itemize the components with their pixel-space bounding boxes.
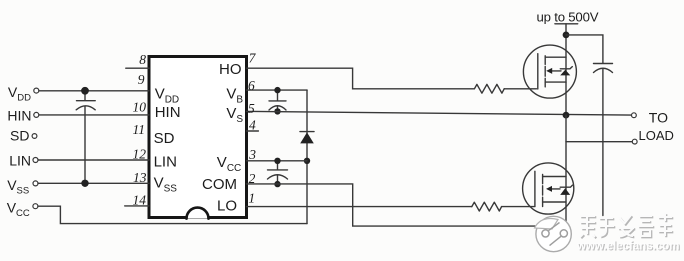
svg-text:LIN: LIN [9, 153, 31, 169]
svg-text:8: 8 [139, 52, 146, 67]
wire LO pin1 to gate resistor [247, 206, 472, 208]
wire pin8 stub [126, 67, 149, 69]
wire LIN to pin12 [38, 159, 149, 161]
wire 500V rail down through Q1 to VS node [565, 24, 567, 115]
wire VS pin5 to TO terminal [247, 111, 632, 115]
svg-text:TO: TO [649, 109, 668, 125]
Q1 channel bar [544, 56, 546, 87]
transistor Q2 circle [523, 163, 574, 214]
junction COM-C3 [274, 181, 280, 187]
Q1 body diode cathode bar [560, 67, 572, 69]
svg-text:SD: SD [10, 128, 29, 144]
svg-text:3: 3 [248, 147, 256, 162]
capacitor C3 lead to COM [277, 175, 279, 184]
wire bootstrap diode riser VB to bottom rail [306, 90, 308, 224]
wire HO pin7 to gate resistor [247, 68, 475, 89]
junction rail to bus cap [563, 32, 570, 39]
Q1 drain tap [545, 56, 566, 58]
Q2 body arrow [546, 186, 552, 192]
svg-text:up to 500V: up to 500V [537, 9, 599, 24]
terminal LIN [33, 158, 38, 163]
svg-text:1: 1 [248, 191, 255, 206]
wire VCC pin3 [247, 160, 308, 162]
svg-text:SD: SD [154, 130, 175, 147]
junction VCC-C3 [274, 158, 280, 164]
wire pin14 stub [125, 205, 149, 207]
terminal VSS [33, 181, 38, 186]
svg-text:5: 5 [248, 101, 255, 116]
junction VB-C2 [274, 87, 280, 93]
wire phase node down through Q2 to COM rail [565, 115, 567, 226]
capacitor C1 lead from VDD line [84, 91, 86, 101]
terminal VCC [33, 204, 38, 209]
svg-text:11: 11 [133, 122, 146, 137]
svg-text:LOAD: LOAD [639, 128, 674, 143]
svg-text:4: 4 [249, 118, 256, 133]
IC U1 body [149, 57, 247, 218]
svg-text:VDD: VDD [8, 84, 31, 104]
capacitor C2 plates [269, 100, 286, 102]
svg-text:LIN: LIN [154, 153, 177, 170]
resistor R2 (low side gate) [472, 202, 502, 211]
Q1 body tap [552, 70, 561, 72]
svg-text:www.elecfans.com: www.elecfans.com [576, 241, 679, 253]
svg-text:9: 9 [138, 72, 145, 87]
svg-text:14: 14 [133, 193, 147, 208]
svg-text:12: 12 [133, 146, 147, 161]
Q2 body diode [560, 188, 570, 195]
svg-text:10: 10 [133, 99, 147, 114]
watermark CJK text (approximated strokes, embossed) [580, 213, 673, 238]
svg-text:HIN: HIN [7, 107, 31, 123]
svg-text:VCC: VCC [7, 199, 30, 219]
wire VDD to pin9 [39, 90, 149, 92]
wire VCC down and along bottom to pin3 riser [38, 206, 307, 223]
terminal LOAD [632, 139, 637, 144]
terminal HIN [34, 112, 39, 117]
Q2 body tap [552, 188, 560, 190]
svg-text:7: 7 [249, 50, 257, 65]
svg-text:HO: HO [219, 61, 242, 78]
junction VS phase node [563, 112, 570, 119]
terminal SD [32, 134, 37, 139]
capacitor C2 lead [277, 90, 279, 100]
diode D1 [300, 132, 314, 143]
junction VS-C2 [274, 108, 280, 114]
resistor R1 (high side gate) [474, 84, 504, 93]
junction VDD-C1 [81, 87, 89, 95]
wire phase to LOAD terminal [566, 141, 632, 143]
supply bar up to 500V [555, 23, 578, 25]
wire rail to bus capacitor C4 [566, 35, 603, 63]
diode D1 cathode bar [300, 131, 314, 133]
junction VSS-C1 [81, 180, 88, 187]
Q2 channel bar [542, 174, 544, 206]
Q1 gate bar [537, 54, 539, 89]
watermark logo [535, 216, 572, 251]
svg-text:6: 6 [248, 78, 255, 93]
capacitor C3 lead [277, 161, 279, 170]
svg-text:LO: LO [217, 198, 237, 215]
svg-text:COM: COM [202, 176, 237, 193]
wire COM pin2 down to low-side source rail [247, 184, 567, 226]
wire R2 to Q2 gate [502, 206, 534, 208]
svg-text:2: 2 [249, 171, 256, 186]
wire VB pin6 [247, 89, 308, 91]
svg-text:VSS: VSS [7, 177, 29, 197]
capacitor C2 lead to VS [277, 106, 279, 111]
Q2 drain tap [543, 176, 566, 178]
Q2 gate bar [534, 171, 536, 206]
wire C4 down [602, 69, 604, 216]
Q2 body diode cathode bar [560, 185, 572, 187]
wire R1 to Q1 gate [504, 88, 536, 90]
Q1 source tap [545, 81, 566, 83]
capacitor C1 plates [77, 100, 96, 102]
capacitor C3 plates [268, 169, 288, 171]
wire HIN to pin10 [39, 114, 149, 116]
terminal TO [632, 113, 637, 118]
IC bottom notch [187, 208, 209, 219]
terminal VDD [34, 88, 39, 93]
Q1 body diode [560, 70, 570, 76]
transistor Q1 circle [523, 45, 576, 98]
Q1 body arrow [546, 68, 552, 74]
svg-text:HIN: HIN [155, 104, 181, 121]
junction D1-VCC line [304, 158, 310, 164]
wire C1 down to VSS line [84, 106, 86, 183]
wire pin4 stub [247, 130, 259, 132]
capacitor C4 plates [594, 63, 613, 65]
Q2 source tap [543, 201, 566, 203]
wire VSS to pin13 [38, 182, 149, 184]
svg-text:13: 13 [133, 170, 147, 185]
